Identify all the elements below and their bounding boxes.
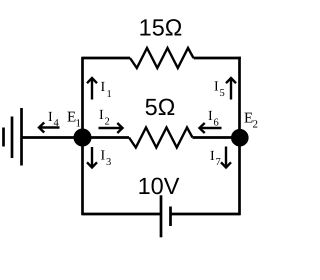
svg-text:1: 1 [107, 89, 112, 100]
svg-text:I: I [101, 80, 106, 95]
svg-text:1: 1 [76, 118, 82, 130]
svg-text:I: I [99, 108, 104, 123]
svg-text:5Ω: 5Ω [145, 94, 176, 120]
svg-text:I: I [214, 80, 219, 95]
ground bar short [2, 128, 5, 147]
svg-text:5: 5 [220, 88, 225, 99]
resistor R1 15ohm zigzag [130, 48, 194, 68]
current arrow I4 (left) [39, 123, 60, 133]
battery V1 long plate (10V) [160, 195, 163, 237]
current arrow I2 (right) [99, 123, 123, 133]
svg-text:10V: 10V [138, 173, 180, 199]
svg-text:I: I [48, 110, 53, 125]
svg-text:3: 3 [106, 157, 111, 168]
wire left vertical [81, 57, 84, 216]
svg-text:I: I [208, 109, 213, 124]
current arrow I5 (up) [226, 78, 236, 100]
wire top-right segment [194, 57, 241, 60]
ground bar middle [11, 117, 14, 159]
svg-text:2: 2 [253, 119, 259, 131]
current arrow I1 (up) [87, 78, 97, 100]
node E1 junction dot [74, 129, 92, 147]
svg-text:2: 2 [105, 117, 110, 128]
svg-text:15Ω: 15Ω [139, 15, 183, 41]
wire right vertical [238, 57, 241, 216]
wire bottom-right segment [171, 213, 240, 216]
svg-text:6: 6 [214, 118, 219, 129]
svg-text:I: I [101, 149, 106, 164]
battery V1 short plate [169, 207, 172, 227]
current arrow I3 (down) [87, 147, 97, 168]
current arrow I7 (down) [221, 147, 231, 168]
wire node E1 to resistor R2 [83, 136, 130, 139]
node E2 junction dot [231, 129, 249, 147]
wire ground to node E1 [22, 136, 83, 139]
current arrow I6 (left) [200, 123, 222, 133]
wire bottom-left segment [83, 213, 162, 216]
resistor R2 5ohm zigzag [129, 128, 193, 148]
svg-text:7: 7 [216, 157, 221, 168]
ground bar long [20, 108, 23, 166]
svg-text:4: 4 [54, 118, 60, 129]
wire top-left segment [83, 57, 131, 60]
wire resistor R2 to node E2 [193, 136, 240, 139]
svg-text:I: I [210, 149, 215, 164]
